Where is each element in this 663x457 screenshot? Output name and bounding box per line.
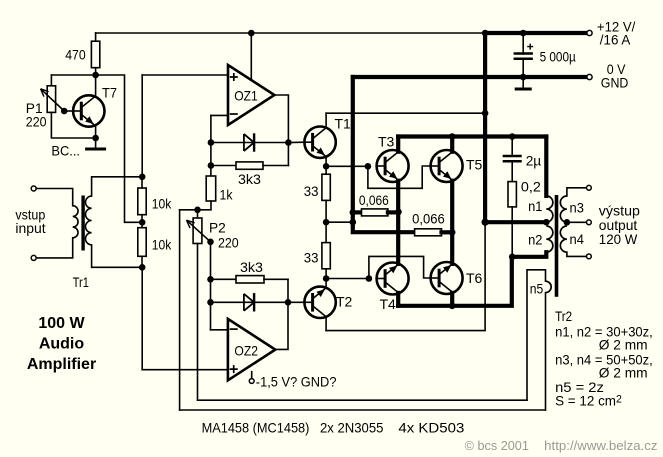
svg-text:3k3: 3k3 xyxy=(238,171,261,187)
wire Tr1 secondary bottom xyxy=(92,245,143,267)
wire 3k3-1 left lead xyxy=(211,165,236,167)
wire T7 node to P1 top xyxy=(51,74,95,76)
wire OZ2 offset stub xyxy=(251,372,253,379)
wire diode D1 node xyxy=(211,142,289,144)
wire 3k3-2 left lead xyxy=(211,278,237,280)
wire to T4 base xyxy=(326,278,369,280)
inductor Tr2 winding n5 xyxy=(546,281,552,292)
svg-text:33: 33 xyxy=(304,250,319,266)
resistor 10k upper xyxy=(138,188,146,215)
svg-text:n2: n2 xyxy=(528,232,543,248)
wire T7 collector lead xyxy=(95,75,97,97)
resistor 3k3 (OZ2 feedback) xyxy=(236,276,264,283)
wire 0,066-1 left lead xyxy=(353,210,362,214)
wire 3k3-2 right lead xyxy=(264,278,288,280)
wire T4 emitter lead xyxy=(396,293,400,306)
svg-text:Audio: Audio xyxy=(39,336,85,353)
wire n2 bottom to output node xyxy=(512,252,546,257)
svg-text:n5: n5 xyxy=(530,281,544,297)
wire 3k3-1 right lead xyxy=(263,165,288,167)
svg-text:GND: GND xyxy=(601,75,629,91)
wire +12V to Tr2 primary center tap xyxy=(485,220,546,224)
resistor 10k lower xyxy=(138,228,146,257)
wire OZ1 - input vertical xyxy=(210,115,212,176)
inductor Tr2 winding n4 xyxy=(560,226,567,252)
diode D2 xyxy=(244,293,254,311)
terminal output middle xyxy=(587,220,592,225)
junction Tr1 bottom / OZ2+ xyxy=(139,264,146,271)
transistor T2 xyxy=(304,287,335,318)
svg-text:220: 220 xyxy=(26,114,47,130)
resistor 0,066 upper xyxy=(362,209,388,216)
junction T3 base xyxy=(365,163,372,170)
junction D2 cathode / T2 base xyxy=(285,299,292,306)
transistor T6 xyxy=(431,262,463,294)
wire T4 base to T6 base xyxy=(369,256,431,278)
svg-text:/16 A: /16 A xyxy=(600,32,631,48)
svg-text:input: input xyxy=(15,220,45,236)
terminal output top xyxy=(587,185,592,190)
transistor T1 xyxy=(304,127,335,158)
wire rail to Tr2 n1 top xyxy=(544,137,548,196)
junction D1 cathode / T1 base xyxy=(285,139,292,146)
wire OZ1 supply pin xyxy=(250,33,252,79)
resistor 1k xyxy=(206,176,216,201)
junction n3/n4 tap xyxy=(564,219,571,226)
wire T2 emitter lead xyxy=(325,279,327,288)
wire 2u top lead xyxy=(511,137,513,157)
wire 10k upper top lead xyxy=(141,177,143,188)
ground under T7 xyxy=(85,148,106,151)
wire T2 collector lead xyxy=(325,317,327,331)
transistor T5 xyxy=(431,150,463,182)
junction T1 collector / +12V feed xyxy=(482,110,489,117)
wire n3 top to output terminal xyxy=(567,188,587,196)
resistor 33 lower xyxy=(322,243,330,269)
junction +12V feed / center tap / T2 collector xyxy=(482,219,489,226)
resistor 3k3 (OZ1 feedback) xyxy=(236,162,263,169)
capacitor 2u xyxy=(503,156,522,161)
svg-text:Amplifier: Amplifier xyxy=(27,356,96,373)
junction T7 emitter xyxy=(92,135,99,142)
terminal 0V GND xyxy=(587,74,592,79)
wire n5 winding right lead xyxy=(545,293,547,410)
ground under 5000u xyxy=(515,88,532,91)
wire OZ1 - input xyxy=(211,114,228,116)
terminal input bottom xyxy=(31,255,36,260)
wire 0,066-1 right lead xyxy=(388,210,398,214)
svg-text:http://www.belza.cz: http://www.belza.cz xyxy=(544,438,657,453)
svg-text:10k: 10k xyxy=(152,196,172,212)
wire n5 winding left lead xyxy=(527,270,546,400)
wire +12V rail thin segment xyxy=(96,32,486,34)
svg-text:OZ2: OZ2 xyxy=(234,343,258,359)
junction Tr1 top / OZ1+ xyxy=(139,174,146,181)
svg-text:0,2: 0,2 xyxy=(521,179,541,195)
potentiometer P1 body xyxy=(47,86,55,113)
potentiometer P1 wiper arrow xyxy=(41,89,65,111)
wire T3 emitter to T4 collector xyxy=(396,181,400,264)
wire OZ2 - input xyxy=(211,329,228,331)
svg-text:n1: n1 xyxy=(528,198,543,214)
op-amp OZ2 xyxy=(228,319,275,380)
svg-text:220: 220 xyxy=(218,235,239,251)
junction 1k/P2 top xyxy=(194,207,201,214)
wire diode D2 node xyxy=(211,301,289,303)
junction T2 emitter / T4 base node xyxy=(323,275,330,282)
wire OZ2 + input vertical xyxy=(141,267,143,369)
wire n5 feedback to 1k node xyxy=(180,409,546,411)
wire OZ2 output xyxy=(275,279,288,349)
wire +12V feed vertical xyxy=(483,33,487,222)
junction 0,066-2 right xyxy=(449,229,456,236)
core Tr2 xyxy=(555,195,559,297)
op-amp OZ1 xyxy=(228,65,274,125)
svg-text:T1: T1 xyxy=(335,116,352,132)
junction T4 base xyxy=(366,275,373,282)
inductor Tr2 winding n1 xyxy=(546,196,553,222)
wire top output rail xyxy=(398,134,546,138)
svg-text:2x 2N3055: 2x 2N3055 xyxy=(320,420,384,436)
inductor Tr2 winding n2 xyxy=(546,226,553,252)
wire P2 top lead xyxy=(197,210,199,218)
transistor T7 xyxy=(73,95,104,126)
junction 0V leg / 33 midpoint xyxy=(350,219,357,226)
svg-text:© bcs 2001: © bcs 2001 xyxy=(465,438,529,453)
wire to T2 base xyxy=(288,301,305,303)
terminal input top xyxy=(31,186,36,191)
wire to T1 base xyxy=(288,141,304,143)
wire input top to Tr1 primary xyxy=(36,189,72,206)
wire P1 top lead xyxy=(50,75,52,86)
terminal output bottom xyxy=(587,254,592,259)
junction T6 emitter / bottom rail xyxy=(449,303,456,310)
svg-text:OZ1: OZ1 xyxy=(234,88,258,104)
wire 0V down-leg to 0,066 resistors xyxy=(353,77,415,232)
junction T5 collector / top rail xyxy=(449,133,456,140)
terminal +12V xyxy=(587,30,592,35)
wire T3 base to T5 base xyxy=(368,166,431,188)
junction T1 emitter / T3 base node xyxy=(323,163,330,170)
wire T3 collector lead xyxy=(396,137,400,152)
junction D2 anode xyxy=(207,299,214,306)
terminal OZ2 offset test point xyxy=(249,379,254,384)
wire 1k bottom to P2 top xyxy=(180,201,211,210)
wire T7 emitter to ground xyxy=(95,138,97,148)
junction 0V/5000u xyxy=(520,74,527,81)
wire P1 bottom to T7 emitter xyxy=(51,112,95,138)
wire +12V rail thick segment xyxy=(485,31,587,35)
svg-text:Ø 2 mm: Ø 2 mm xyxy=(599,337,648,353)
wire n5 feedback to P2 bottom xyxy=(198,399,528,401)
svg-text:n3: n3 xyxy=(570,200,585,216)
inductor Tr2 winding n3 xyxy=(560,196,567,222)
svg-text:3k3: 3k3 xyxy=(240,259,263,275)
junction 0,2 / n2 bottom / bottom rail xyxy=(509,253,516,260)
wire 5000u top lead xyxy=(522,33,524,54)
resistor 33 upper xyxy=(322,174,330,200)
svg-text:n4: n4 xyxy=(570,231,585,247)
wire 5000u bottom lead xyxy=(522,60,524,77)
wire bottom output rail xyxy=(398,257,512,306)
wire to ground symbol xyxy=(522,77,524,88)
svg-text:Tr2: Tr2 xyxy=(555,308,572,324)
transistor T4 xyxy=(377,263,409,295)
wire T1 collector to +12V xyxy=(326,112,485,114)
potentiometer P2 body xyxy=(193,218,202,244)
wire 33-1 top lead xyxy=(325,166,327,174)
junction P1 wiper xyxy=(61,108,68,115)
svg-text:100 W: 100 W xyxy=(38,315,85,332)
wire Tr1 secondary top xyxy=(92,177,143,196)
svg-text:4x KD503: 4x KD503 xyxy=(398,420,464,436)
svg-text:Tr1: Tr1 xyxy=(73,274,89,290)
svg-text:0,066: 0,066 xyxy=(359,192,389,208)
resistor 470 xyxy=(91,41,99,67)
wire P1 wiper to T7 base xyxy=(64,110,73,112)
svg-text:470: 470 xyxy=(65,47,86,63)
wire 470 top lead xyxy=(95,33,97,41)
svg-text:T3: T3 xyxy=(378,134,395,150)
junction 0,066-1 right xyxy=(395,209,402,216)
capacitor 5000u xyxy=(514,54,533,59)
junction 0,066-1 left xyxy=(350,209,357,216)
wire T1 emitter lead xyxy=(325,157,327,167)
resistor 0,066 lower xyxy=(415,229,442,236)
wire 0,2 bottom lead xyxy=(511,207,513,257)
resistor 0,2 xyxy=(508,182,516,207)
junction +12V rail / feed vertical xyxy=(482,30,489,37)
wire 470 bottom lead xyxy=(95,68,97,75)
junction T7 collector node xyxy=(92,72,99,79)
svg-text:T6: T6 xyxy=(466,270,483,286)
inductor Tr1 primary winding xyxy=(73,206,78,238)
wire 0V rail xyxy=(353,75,587,79)
wire n4 bottom to output terminal xyxy=(567,252,587,256)
wire T1 emitter to T3 base xyxy=(326,165,368,167)
core Tr1 xyxy=(81,196,84,251)
junction +12V/5000u xyxy=(520,30,527,37)
transistor T3 xyxy=(377,150,409,182)
junction OZ1 supply on +12V rail xyxy=(248,30,255,37)
wire P2 wiper vertical xyxy=(210,242,212,330)
wire 33 midpoint xyxy=(325,200,327,242)
wire 1k node feedback vertical xyxy=(179,210,181,410)
potentiometer P2 wiper arrow xyxy=(187,220,211,242)
wire T6 emitter lead xyxy=(450,293,454,306)
junction 3k3-1 / 1k xyxy=(208,162,215,169)
wire 33-2 bottom lead xyxy=(325,269,327,279)
wire T7 node to 10k midpoint xyxy=(96,75,143,222)
svg-text:1k: 1k xyxy=(220,187,234,203)
svg-text:10k: 10k xyxy=(152,237,172,253)
wire OZ1 + input to Tr1 top node xyxy=(141,75,143,177)
svg-text:2µ: 2µ xyxy=(526,153,542,169)
wire OZ1 + input xyxy=(142,74,228,76)
svg-text:0,066: 0,066 xyxy=(412,211,445,227)
label 5000u polarity + xyxy=(527,44,533,50)
wire OZ1 output xyxy=(274,95,288,166)
svg-text:T4: T4 xyxy=(380,296,397,312)
diode D1 xyxy=(244,133,254,151)
wire P2 bottom feedback vertical xyxy=(197,244,199,401)
wire T5 collector lead xyxy=(450,137,454,152)
svg-text:P2: P2 xyxy=(209,220,226,236)
wire T7 emitter lead xyxy=(95,125,97,138)
wire 10k midpoint xyxy=(141,215,143,228)
wire n3/n4 tap to output terminal xyxy=(567,221,587,223)
svg-text:BC...: BC... xyxy=(51,143,80,159)
wire T5 emitter to T6 collector xyxy=(450,181,454,264)
wire 0,066-2 right lead xyxy=(442,230,453,234)
wire Tr1 primary bottom to input terminal xyxy=(36,238,72,258)
junction Tr2 primary center tap xyxy=(543,219,550,226)
junction D1 anode xyxy=(208,139,215,146)
junction 33 midpoint xyxy=(323,219,330,226)
svg-text:Ø 2 mm: Ø 2 mm xyxy=(599,365,648,381)
wire OZ2 + input xyxy=(142,369,228,371)
svg-text:120 W: 120 W xyxy=(599,231,638,247)
svg-text:T2: T2 xyxy=(336,294,353,310)
junction 2u on top rail xyxy=(509,133,516,140)
svg-text:T5: T5 xyxy=(466,157,483,173)
svg-text:S = 12 cm2: S = 12 cm2 xyxy=(555,393,622,409)
wire T2 collector to +12V node xyxy=(326,222,485,330)
junction P2 wiper xyxy=(207,239,214,246)
svg-text:T7: T7 xyxy=(102,85,117,101)
svg-text:MA1458 (MC1458): MA1458 (MC1458) xyxy=(202,420,310,436)
wire 2u to 0,2 xyxy=(511,161,513,181)
junction 10k midpoint xyxy=(139,219,146,226)
svg-text:5 000µ: 5 000µ xyxy=(540,49,576,65)
inductor Tr1 secondary winding xyxy=(85,196,91,245)
svg-text:33: 33 xyxy=(304,183,319,199)
wire T1 collector lead xyxy=(325,113,327,128)
junction 3k3-2 / wiper xyxy=(207,276,214,283)
svg-text:-1,5 V? GND?: -1,5 V? GND? xyxy=(256,374,337,390)
wire 10k lower bottom lead xyxy=(141,256,143,267)
wire 33 midpoint to 0V leg xyxy=(326,221,353,223)
